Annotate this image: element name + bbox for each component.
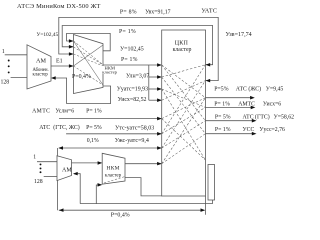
wire НКМ bottom second output to ЦКП bottom corner	[125, 178, 162, 196]
subscriber line 1 (top)	[5, 54, 27, 56]
svg-text:P=0,4%: P=0,4%	[111, 213, 130, 219]
dots (bottom subscriber ellipsis)	[40, 163, 42, 173]
wire loop B: ЦКП right to НКМ left	[62, 26, 212, 65]
wire НКМ bottom to ЦКП (y=163.7)	[125, 163, 161, 165]
arrowhead right end of bottom line into ЦКП extension	[201, 208, 206, 212]
dashed line inside НКМ bottom	[104, 177, 125, 184]
block НКМ top (trapezoid)	[74, 35, 104, 94]
arrowhead into НКМ left edge y=54	[69, 52, 74, 56]
svg-text:АМ: АМ	[62, 167, 72, 173]
output row 4: P=1% УСС Уусс=2,76	[205, 133, 252, 135]
svg-text:У=9,45: У=9,45	[266, 86, 284, 92]
svg-text:P= 8%: P= 8%	[120, 10, 137, 16]
svg-text:АМТС: АМТС	[32, 108, 50, 114]
arrowhead into ЦКП y=88.4	[157, 87, 162, 91]
wire branch Уисх	[149, 99, 161, 101]
wire branch Ууатс	[149, 88, 161, 90]
subscriber line 128 (bottom)	[44, 176, 57, 178]
subscriber line 128 (top)	[11, 77, 27, 79]
box trunk R (right bottom)	[208, 165, 215, 201]
fabric lines inside НКМ top	[74, 41, 104, 85]
wire bottom return line (P=0,4%)	[59, 209, 205, 211]
block АМ bottom	[57, 156, 72, 181]
svg-text:1: 1	[33, 155, 36, 161]
svg-text:кластер: кластер	[173, 47, 192, 53]
svg-text:кластер: кластер	[102, 69, 117, 74]
svg-text:Уисх=82,52: Уисх=82,52	[118, 97, 147, 103]
svg-text:Ууатс=19,93: Ууатс=19,93	[117, 87, 148, 93]
svg-text:У=58,62: У=58,62	[274, 114, 295, 120]
wire E1: АМ to НКМ	[51, 65, 73, 67]
svg-text:P= 1%: P= 1%	[214, 101, 230, 107]
svg-text:У=102,45: У=102,45	[37, 32, 59, 38]
svg-text:P= 1%: P= 1%	[121, 57, 138, 63]
wire vertical bus x=148.8	[148, 65, 150, 100]
svg-text:Услм=6: Услм=6	[55, 108, 74, 114]
svg-text:Увх=91,17: Увх=91,17	[145, 10, 170, 16]
svg-text:УАТС: УАТС	[201, 7, 217, 14]
svg-text:Ужс-уатс=9,4: Ужс-уатс=9,4	[115, 138, 149, 144]
wire АМ bottom to НКМ bottom	[72, 162, 102, 164]
wire loop A (УАТС incoming): ЦКП right to НКМ left over the top	[59, 17, 218, 80]
output row 3: P=5% АТС (ГТС) У=58,62	[205, 120, 252, 122]
wire branch Улн	[149, 76, 161, 78]
svg-text:Уисх=6: Уисх=6	[263, 101, 281, 107]
wire АМ return loop (НКМ bottom to АМ)	[52, 78, 111, 104]
svg-text:Е1: Е1	[56, 59, 63, 65]
svg-text:P= 1%: P= 1%	[119, 29, 136, 35]
arrowhead left end of bottom line	[59, 208, 64, 212]
arrowhead into НКМ left edge y=46.8	[69, 45, 74, 49]
svg-text:P= 1%: P= 1%	[86, 108, 102, 114]
wire loop C: НКМ self loop over the top	[67, 33, 111, 50]
svg-text:1: 1	[2, 49, 5, 55]
svg-text:P= 5%: P= 5%	[215, 114, 231, 120]
svg-text:АМТС: АМТС	[238, 101, 255, 107]
svg-text:НКМ: НКМ	[107, 165, 120, 171]
arrowhead into АМ right edge y=78	[51, 76, 56, 80]
input row 2: АТС (ГТС, ЖС) P=5% Утс-уатс=58,03	[66, 133, 161, 135]
block НКМ bottom (trapezoid)	[102, 153, 125, 184]
input row 3: 0,1% Ужс-уатс=9,4 (bidirectional)	[59, 147, 161, 149]
arrowhead into ЦКП left edge y=163.7	[157, 162, 162, 166]
svg-text:АТСЭ МиниКом DX-500 ЖТ: АТСЭ МиниКом DX-500 ЖТ	[17, 3, 101, 10]
arrowhead into НКМ bottom at y=185	[98, 183, 103, 187]
wire НКМ to ЦКП main (У=102,45 P=1%)	[103, 64, 161, 66]
arrowhead into НКМ bottom left edge y=162.9	[98, 161, 103, 165]
label НКМ кластер (right edge of trapezoid)	[100, 66, 118, 75]
svg-text:Узв=17,74: Узв=17,74	[226, 32, 252, 38]
wire vertical from row3 down to bottom line	[56, 148, 58, 210]
dots (top subscriber ellipsis)	[8, 60, 10, 74]
svg-text:УСС: УСС	[243, 127, 255, 133]
svg-text:У=102,45: У=102,45	[120, 46, 144, 52]
svg-text:P=5%: P=5%	[214, 86, 228, 92]
svg-text:кластер: кластер	[105, 174, 122, 179]
output row 2: P=1% АМТС Уисх=6	[205, 106, 251, 108]
svg-text:128: 128	[1, 80, 10, 86]
svg-text:Улн=3,07: Улн=3,07	[126, 73, 149, 79]
arrowhead into ЦКП y=99.7	[157, 98, 162, 102]
svg-text:Уусс=2,76: Уусс=2,76	[259, 127, 285, 133]
arrowhead into НКМ left edge y=41	[69, 39, 74, 43]
svg-text:0,1%: 0,1%	[87, 138, 99, 144]
block АМ top (Абонентский кластер)	[27, 45, 51, 89]
box ЦКП кластер	[162, 30, 206, 196]
svg-text:P= 1%: P= 1%	[215, 127, 231, 133]
output row 1: P=5% АТС (ЖС) У=9,45	[205, 97, 251, 99]
arrowhead into ЦКП left edge y=65	[157, 63, 162, 67]
svg-text:P=0,4%: P=0,4%	[72, 74, 91, 80]
fabric dashed lines inside ЦКП	[162, 65, 206, 164]
svg-text:АТС (ЖС): АТС (ЖС)	[236, 85, 261, 92]
wire lower entry into НКМ bottom	[96, 185, 101, 204]
svg-text:P= 5%: P= 5%	[86, 125, 102, 131]
wire from R down and left (y=203.6)	[80, 200, 212, 204]
svg-text:кластер: кластер	[33, 72, 49, 77]
arrowhead into ЦКП y=76.7	[157, 75, 162, 79]
arrowhead into ЦКП right edge y=64.7	[206, 63, 211, 67]
svg-text:АТС (ГТС): АТС (ГТС)	[243, 113, 270, 120]
input row 1: АМТС Услм=6 P=1%	[59, 118, 161, 120]
wire return into АМ bottom	[74, 174, 80, 204]
svg-text:АМ: АМ	[36, 58, 46, 65]
svg-text:АТС: АТС	[39, 125, 50, 131]
arrowhead into ЦКП right edge y=80.6	[206, 79, 211, 83]
subscriber line 1 (bottom)	[37, 161, 57, 163]
svg-text:(ГТС, ЖС): (ГТС, ЖС)	[53, 124, 80, 131]
wire ЦКП right edge extension below box	[205, 196, 207, 215]
svg-text:128: 128	[34, 179, 43, 185]
arrowhead into АМ bottom right edge y=173.7	[73, 172, 78, 176]
svg-text:ЦКП: ЦКП	[175, 41, 189, 47]
svg-text:Утс-уатс=58,03: Утс-уатс=58,03	[115, 126, 154, 132]
arrowhead into НКМ left edge y=66	[69, 64, 74, 68]
